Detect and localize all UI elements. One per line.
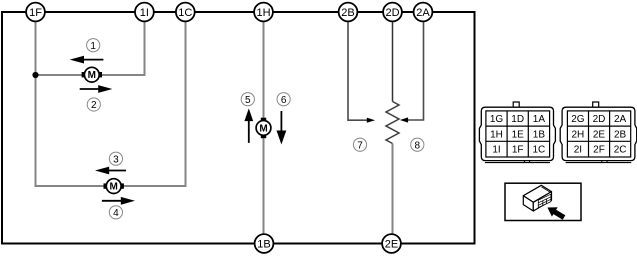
arrow 1 left	[70, 56, 104, 64]
main circuit frame	[2, 12, 475, 244]
label 2	[87, 98, 100, 111]
svg-text:2A: 2A	[614, 114, 627, 125]
svg-text:7: 7	[357, 140, 363, 151]
svg-text:2E: 2E	[385, 239, 398, 251]
svg-text:5: 5	[245, 95, 251, 106]
wire 1F down to motor2 row and across to 1C riser	[36, 22, 186, 187]
terminal 2D	[383, 3, 402, 22]
svg-text:8: 8	[415, 140, 421, 151]
svg-text:1E: 1E	[512, 129, 525, 140]
svg-text:1H: 1H	[490, 129, 503, 140]
svg-text:2: 2	[91, 100, 97, 111]
arrow 3 left	[95, 167, 126, 175]
arrow 4 right	[102, 197, 135, 205]
svg-text:1B: 1B	[257, 239, 270, 251]
terminal 1C	[176, 3, 195, 22]
svg-text:1I: 1I	[492, 145, 500, 156]
label 6	[277, 93, 290, 106]
svg-text:2I: 2I	[574, 145, 582, 156]
label 5	[241, 93, 254, 106]
terminal 1F	[26, 3, 45, 22]
svg-text:1I: 1I	[140, 7, 149, 19]
svg-text:6: 6	[281, 95, 287, 106]
legend box	[505, 183, 581, 220]
label 4	[109, 206, 122, 219]
legend arrow	[548, 207, 566, 220]
connector 1 pin labels	[490, 114, 546, 156]
label 1	[87, 39, 100, 52]
svg-text:1H: 1H	[256, 7, 270, 19]
svg-text:2D: 2D	[593, 114, 606, 125]
svg-text:M: M	[88, 70, 96, 81]
svg-text:2A: 2A	[416, 7, 430, 19]
terminal 2A	[414, 3, 433, 22]
svg-text:1C: 1C	[178, 7, 192, 19]
svg-text:2G: 2G	[571, 114, 585, 125]
terminal 2B	[339, 3, 358, 22]
svg-text:1C: 1C	[533, 145, 546, 156]
junction dot	[32, 72, 38, 78]
connector 2 pin labels	[571, 114, 626, 156]
connector 1 pin grid	[486, 111, 550, 157]
svg-text:2C: 2C	[614, 145, 627, 156]
svg-text:2B: 2B	[341, 7, 354, 19]
svg-text:1B: 1B	[533, 129, 546, 140]
motor M3	[256, 118, 271, 139]
label 3	[109, 152, 122, 165]
svg-text:1F: 1F	[512, 145, 524, 156]
svg-text:2H: 2H	[572, 129, 585, 140]
svg-text:4: 4	[113, 208, 119, 219]
legend connector icon body	[523, 185, 551, 211]
terminal 2E	[382, 234, 401, 253]
svg-text:1D: 1D	[511, 114, 524, 125]
svg-text:M: M	[110, 182, 118, 193]
wire 1H down through motor3 to 1B	[263, 22, 265, 235]
wire 2D down to resistor	[392, 22, 394, 102]
label 7	[353, 138, 366, 151]
svg-text:1: 1	[90, 41, 96, 52]
resistor	[386, 102, 399, 144]
connector 2 pin grid	[567, 111, 630, 157]
legend connector icon socket	[538, 194, 551, 207]
terminal 1H	[254, 3, 273, 22]
svg-text:2B: 2B	[614, 129, 627, 140]
svg-text:2E: 2E	[593, 129, 606, 140]
arrow 6 down	[277, 111, 287, 145]
svg-text:M: M	[259, 123, 267, 134]
terminal 1B	[255, 234, 274, 253]
arrow 2 right	[80, 85, 113, 93]
svg-text:1F: 1F	[29, 7, 42, 19]
connector housing 2	[560, 102, 637, 163]
svg-text:2F: 2F	[593, 145, 605, 156]
motor M2	[104, 179, 124, 194]
svg-text:3: 3	[113, 154, 119, 165]
terminal 1I	[135, 3, 154, 22]
label 8	[411, 138, 424, 151]
wire junction to motor1 and riser to 1I	[36, 22, 145, 76]
wire 2A branch with arrow to resistor (8)	[407, 22, 424, 121]
motor M1	[82, 67, 102, 82]
wire 2B branch with arrow to resistor (7)	[348, 22, 367, 121]
wire resistor down to 2E	[392, 144, 394, 235]
svg-text:1G: 1G	[490, 114, 504, 125]
svg-text:2D: 2D	[385, 7, 399, 19]
arrow 5 up	[244, 108, 253, 142]
connector housing 1	[479, 102, 555, 163]
svg-text:1A: 1A	[533, 114, 546, 125]
